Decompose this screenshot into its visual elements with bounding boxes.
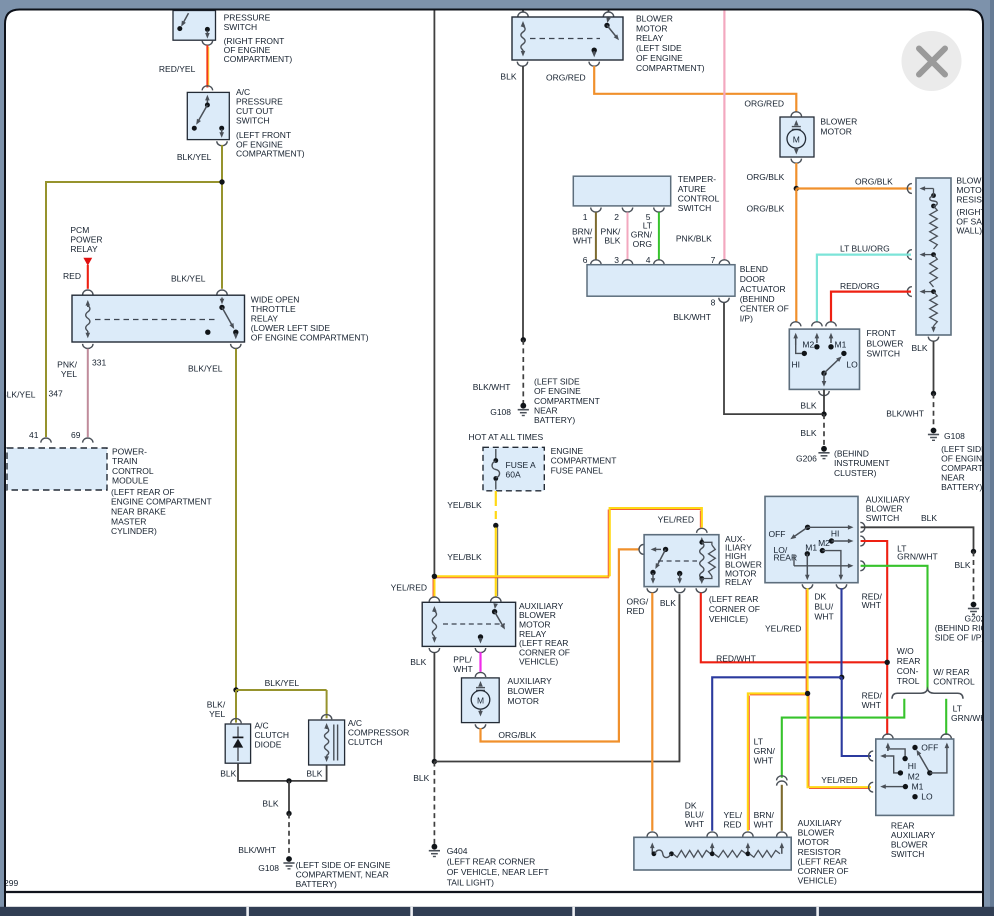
svg-text:HI: HI (792, 359, 801, 369)
svg-text:ORG/: ORG/ (627, 596, 649, 606)
svg-text:6: 6 (583, 255, 588, 265)
svg-text:OF ENGINE: OF ENGINE (534, 386, 581, 396)
svg-text:TAIL LIGHT): TAIL LIGHT) (447, 878, 494, 888)
svg-text:THROTTLE: THROTTLE (251, 304, 296, 314)
svg-text:DIODE: DIODE (255, 739, 282, 749)
svg-text:REAR: REAR (891, 820, 915, 830)
svg-text:COMPARTMENT: COMPARTMENT (534, 396, 600, 406)
svg-text:BLK/WHT: BLK/WHT (886, 408, 924, 418)
svg-text:SWITCH: SWITCH (224, 22, 258, 32)
svg-text:INSTRUMENT: INSTRUMENT (834, 458, 890, 468)
svg-text:AUXILIARY: AUXILIARY (891, 830, 936, 840)
svg-text:ORG/RED: ORG/RED (546, 72, 586, 82)
svg-text:BLK: BLK (413, 773, 429, 783)
svg-text:RED/WHT: RED/WHT (716, 654, 756, 664)
svg-text:COMPARTMENT): COMPARTMENT) (236, 148, 305, 158)
svg-text:GRN/: GRN/ (754, 746, 776, 756)
svg-text:CENTER OF: CENTER OF (740, 304, 789, 314)
svg-text:LO: LO (846, 359, 858, 369)
svg-text:G404: G404 (447, 846, 468, 856)
svg-text:RED: RED (63, 271, 81, 281)
svg-text:WHT: WHT (754, 819, 773, 829)
svg-text:60A: 60A (506, 470, 521, 480)
svg-text:A/C: A/C (255, 720, 269, 730)
svg-text:NEAR: NEAR (534, 405, 558, 415)
svg-text:ORG: ORG (633, 239, 652, 249)
svg-text:TEMPER-: TEMPER- (678, 174, 716, 184)
svg-text:347: 347 (49, 389, 63, 399)
svg-text:MOTOR: MOTOR (798, 837, 829, 847)
svg-text:YEL/RED: YEL/RED (765, 624, 801, 634)
svg-text:BLK: BLK (500, 71, 516, 81)
svg-text:(LEFT REAR: (LEFT REAR (798, 856, 847, 866)
svg-text:COMPARTMENT, NEAR: COMPARTMENT, NEAR (296, 869, 389, 879)
svg-text:G108: G108 (258, 863, 279, 873)
svg-text:1: 1 (583, 212, 588, 222)
svg-text:BLK/YEL: BLK/YEL (171, 273, 206, 283)
svg-text:BLEND: BLEND (740, 264, 768, 274)
svg-text:BLK/WHT: BLK/WHT (473, 382, 511, 392)
svg-text:BLK: BLK (604, 236, 620, 246)
svg-text:RED: RED (627, 606, 645, 616)
svg-text:LO: LO (921, 792, 933, 802)
svg-text:BLK/YEL: BLK/YEL (177, 152, 212, 162)
svg-text:BRN/: BRN/ (754, 810, 775, 820)
svg-text:M1: M1 (912, 781, 924, 791)
svg-text:BLK/YEL: BLK/YEL (1, 390, 36, 400)
svg-text:(LEFT REAR OF: (LEFT REAR OF (111, 487, 175, 497)
svg-text:SWITCH: SWITCH (866, 513, 900, 523)
svg-text:W/O: W/O (897, 646, 914, 656)
svg-text:PPL/: PPL/ (453, 654, 472, 664)
svg-text:CYLINDER): CYLINDER) (111, 526, 157, 536)
svg-text:YEL/BLK: YEL/BLK (447, 552, 482, 562)
svg-text:WHT: WHT (453, 664, 472, 674)
svg-text:DOOR: DOOR (740, 274, 766, 284)
svg-text:BLK: BLK (220, 769, 236, 779)
svg-text:(BEHIND: (BEHIND (834, 448, 869, 458)
svg-text:BLOWER: BLOWER (891, 840, 928, 850)
svg-text:M1: M1 (835, 340, 847, 350)
svg-text:VEHICLE): VEHICLE) (709, 614, 748, 624)
svg-text:COMPARTMENT: COMPARTMENT (551, 456, 617, 466)
svg-text:SWITCH: SWITCH (236, 115, 270, 125)
svg-text:(LEFT SIDE: (LEFT SIDE (941, 444, 987, 454)
svg-text:WHT: WHT (862, 600, 881, 610)
svg-text:(LOWER LEFT SIDE: (LOWER LEFT SIDE (251, 323, 331, 333)
svg-text:ORG/BLK: ORG/BLK (747, 172, 785, 182)
svg-text:BLOWER: BLOWER (867, 338, 904, 348)
svg-text:3: 3 (614, 255, 619, 265)
svg-text:OF ENGINE: OF ENGINE (941, 454, 988, 464)
svg-text:I/P): I/P) (740, 314, 753, 324)
svg-text:RELAY: RELAY (251, 314, 279, 324)
svg-text:CLUSTER): CLUSTER) (834, 468, 877, 478)
svg-text:SWITCH: SWITCH (678, 203, 712, 213)
svg-text:FRONT: FRONT (867, 328, 896, 338)
svg-text:ACTUATOR: ACTUATOR (740, 284, 786, 294)
svg-text:LT BLU/ORG: LT BLU/ORG (840, 243, 890, 253)
svg-text:CON-: CON- (897, 666, 919, 676)
svg-text:AUXILIARY: AUXILIARY (798, 818, 843, 828)
svg-text:NEAR: NEAR (941, 473, 965, 483)
svg-text:W/ REAR: W/ REAR (933, 667, 969, 677)
svg-text:YEL: YEL (209, 709, 225, 719)
svg-text:M: M (793, 135, 800, 145)
svg-text:7: 7 (711, 255, 716, 265)
svg-text:(LEFT SIDE: (LEFT SIDE (534, 377, 580, 387)
svg-text:TRAIN: TRAIN (112, 456, 138, 466)
svg-text:M2: M2 (802, 340, 814, 350)
svg-text:BATTERY): BATTERY) (296, 879, 337, 889)
svg-text:SWITCH: SWITCH (867, 349, 901, 359)
svg-text:CORNER OF: CORNER OF (709, 604, 760, 614)
svg-text:POWER-: POWER- (112, 446, 147, 456)
svg-text:299: 299 (4, 878, 18, 888)
svg-text:BLU/: BLU/ (814, 602, 834, 612)
svg-text:GRN/WHT: GRN/WHT (897, 551, 938, 561)
svg-text:G206: G206 (796, 453, 817, 463)
svg-text:41: 41 (29, 430, 39, 440)
svg-text:BLK: BLK (955, 560, 971, 570)
svg-text:CONTROL: CONTROL (933, 677, 975, 687)
svg-text:SIDE OF I/P): SIDE OF I/P) (935, 633, 985, 643)
svg-text:M: M (477, 696, 484, 706)
svg-text:(BEHIND: (BEHIND (740, 294, 775, 304)
svg-text:YEL/: YEL/ (724, 810, 743, 820)
svg-text:REAR: REAR (897, 656, 921, 666)
svg-text:SWITCH: SWITCH (891, 849, 925, 859)
svg-text:MOTOR: MOTOR (508, 696, 539, 706)
svg-text:M1: M1 (805, 543, 817, 553)
svg-text:WHT: WHT (814, 611, 833, 621)
svg-text:RESISTOR: RESISTOR (798, 847, 841, 857)
svg-text:OF VEHICLE, NEAR LEFT: OF VEHICLE, NEAR LEFT (447, 867, 549, 877)
svg-text:OFF: OFF (769, 529, 786, 539)
svg-text:RELAY: RELAY (636, 33, 664, 43)
svg-text:BLOWER: BLOWER (636, 13, 673, 23)
svg-text:BLOWER: BLOWER (798, 828, 835, 838)
svg-text:69: 69 (71, 430, 81, 440)
svg-text:(LEFT REAR CORNER: (LEFT REAR CORNER (447, 856, 536, 866)
svg-text:RELAY: RELAY (70, 244, 98, 254)
svg-text:BATTERY): BATTERY) (941, 482, 982, 492)
svg-text:ORG/BLK: ORG/BLK (747, 203, 785, 213)
svg-text:YEL/RED: YEL/RED (821, 775, 857, 785)
svg-text:ORG/BLK: ORG/BLK (855, 176, 893, 186)
svg-text:CORNER OF: CORNER OF (798, 866, 849, 876)
svg-text:TROL: TROL (897, 676, 920, 686)
svg-text:FUSE PANEL: FUSE PANEL (551, 465, 604, 475)
svg-text:BATTERY): BATTERY) (534, 415, 575, 425)
svg-text:8: 8 (711, 297, 716, 307)
svg-text:BLK/WHT: BLK/WHT (238, 845, 276, 855)
svg-text:MODULE: MODULE (112, 476, 149, 486)
svg-text:WHT: WHT (754, 755, 773, 765)
svg-text:BLK: BLK (306, 769, 322, 779)
svg-text:MOTOR: MOTOR (636, 23, 667, 33)
svg-text:CLUTCH: CLUTCH (348, 737, 382, 747)
svg-text:BLK/YEL: BLK/YEL (188, 363, 223, 373)
svg-text:AUXILIARY: AUXILIARY (508, 676, 553, 686)
svg-text:331: 331 (92, 358, 106, 368)
svg-text:M2: M2 (908, 771, 920, 781)
svg-text:BLK: BLK (262, 799, 278, 809)
svg-text:RED/ORG: RED/ORG (840, 281, 880, 291)
svg-text:M2: M2 (818, 538, 830, 548)
svg-text:BLK: BLK (921, 513, 937, 523)
svg-text:HI: HI (831, 529, 840, 539)
svg-text:COMPRESSOR: COMPRESSOR (348, 728, 409, 738)
svg-text:WHT: WHT (685, 819, 704, 829)
svg-text:2: 2 (614, 212, 619, 222)
svg-text:COMPARTMENT): COMPARTMENT) (224, 54, 293, 64)
svg-text:HOT AT ALL TIMES: HOT AT ALL TIMES (469, 432, 544, 442)
svg-text:DK: DK (814, 592, 826, 602)
svg-text:YEL/RED: YEL/RED (658, 515, 694, 525)
svg-text:WHT: WHT (862, 700, 881, 710)
svg-text:(LEFT REAR: (LEFT REAR (709, 594, 758, 604)
svg-text:VEHICLE): VEHICLE) (519, 657, 558, 667)
svg-text:YEL/BLK: YEL/BLK (447, 500, 482, 510)
svg-text:YEL: YEL (61, 369, 77, 379)
svg-text:NEAR BRAKE: NEAR BRAKE (111, 507, 166, 517)
svg-text:MOTOR: MOTOR (820, 126, 851, 136)
svg-text:WIDE OPEN: WIDE OPEN (251, 295, 300, 305)
svg-text:OF ENGINE: OF ENGINE (636, 53, 683, 63)
svg-text:VEHICLE): VEHICLE) (798, 875, 837, 885)
svg-text:HI: HI (908, 761, 917, 771)
svg-text:BLK/YEL: BLK/YEL (265, 678, 300, 688)
svg-text:OFF: OFF (921, 742, 938, 752)
svg-text:BLOWER: BLOWER (820, 117, 857, 127)
svg-text:LT: LT (754, 736, 763, 746)
svg-text:BLK: BLK (800, 428, 816, 438)
svg-text:G108: G108 (490, 407, 511, 417)
svg-text:BLK: BLK (912, 343, 928, 353)
svg-text:RELAY: RELAY (725, 577, 753, 587)
svg-text:A/C: A/C (348, 718, 362, 728)
svg-text:OF ENGINE COMPARTMENT): OF ENGINE COMPARTMENT) (251, 333, 369, 343)
svg-text:RED: RED (724, 819, 742, 829)
svg-text:PNK/BLK: PNK/BLK (676, 234, 712, 244)
svg-text:G108: G108 (944, 431, 965, 441)
svg-text:YEL/RED: YEL/RED (391, 583, 427, 593)
svg-text:BLK/WHT: BLK/WHT (673, 312, 711, 322)
svg-text:BLOWER: BLOWER (508, 686, 545, 696)
svg-text:WALL): WALL) (956, 226, 982, 236)
svg-text:CONTROL: CONTROL (112, 466, 154, 476)
svg-text:CLUTCH: CLUTCH (255, 730, 289, 740)
svg-text:(LEFT SIDE OF ENGINE: (LEFT SIDE OF ENGINE (296, 860, 391, 870)
svg-text:BLK: BLK (660, 598, 676, 608)
svg-text:BLK: BLK (800, 400, 816, 410)
svg-text:MASTER: MASTER (111, 516, 146, 526)
svg-text:ORG/BLK: ORG/BLK (498, 730, 536, 740)
svg-text:COMPARTMENT): COMPARTMENT) (636, 63, 705, 73)
svg-text:4: 4 (646, 255, 651, 265)
svg-text:ENGINE COMPARTMENT: ENGINE COMPARTMENT (111, 497, 212, 507)
svg-text:ENGINE: ENGINE (551, 446, 584, 456)
svg-text:WHT: WHT (573, 236, 592, 246)
svg-text:ORG/RED: ORG/RED (744, 98, 784, 108)
svg-text:CONTROL: CONTROL (678, 194, 720, 204)
svg-text:RED/YEL: RED/YEL (159, 64, 196, 74)
svg-text:(LEFT SIDE: (LEFT SIDE (636, 43, 682, 53)
svg-text:ATURE: ATURE (678, 184, 707, 194)
svg-text:BLK: BLK (410, 657, 426, 667)
